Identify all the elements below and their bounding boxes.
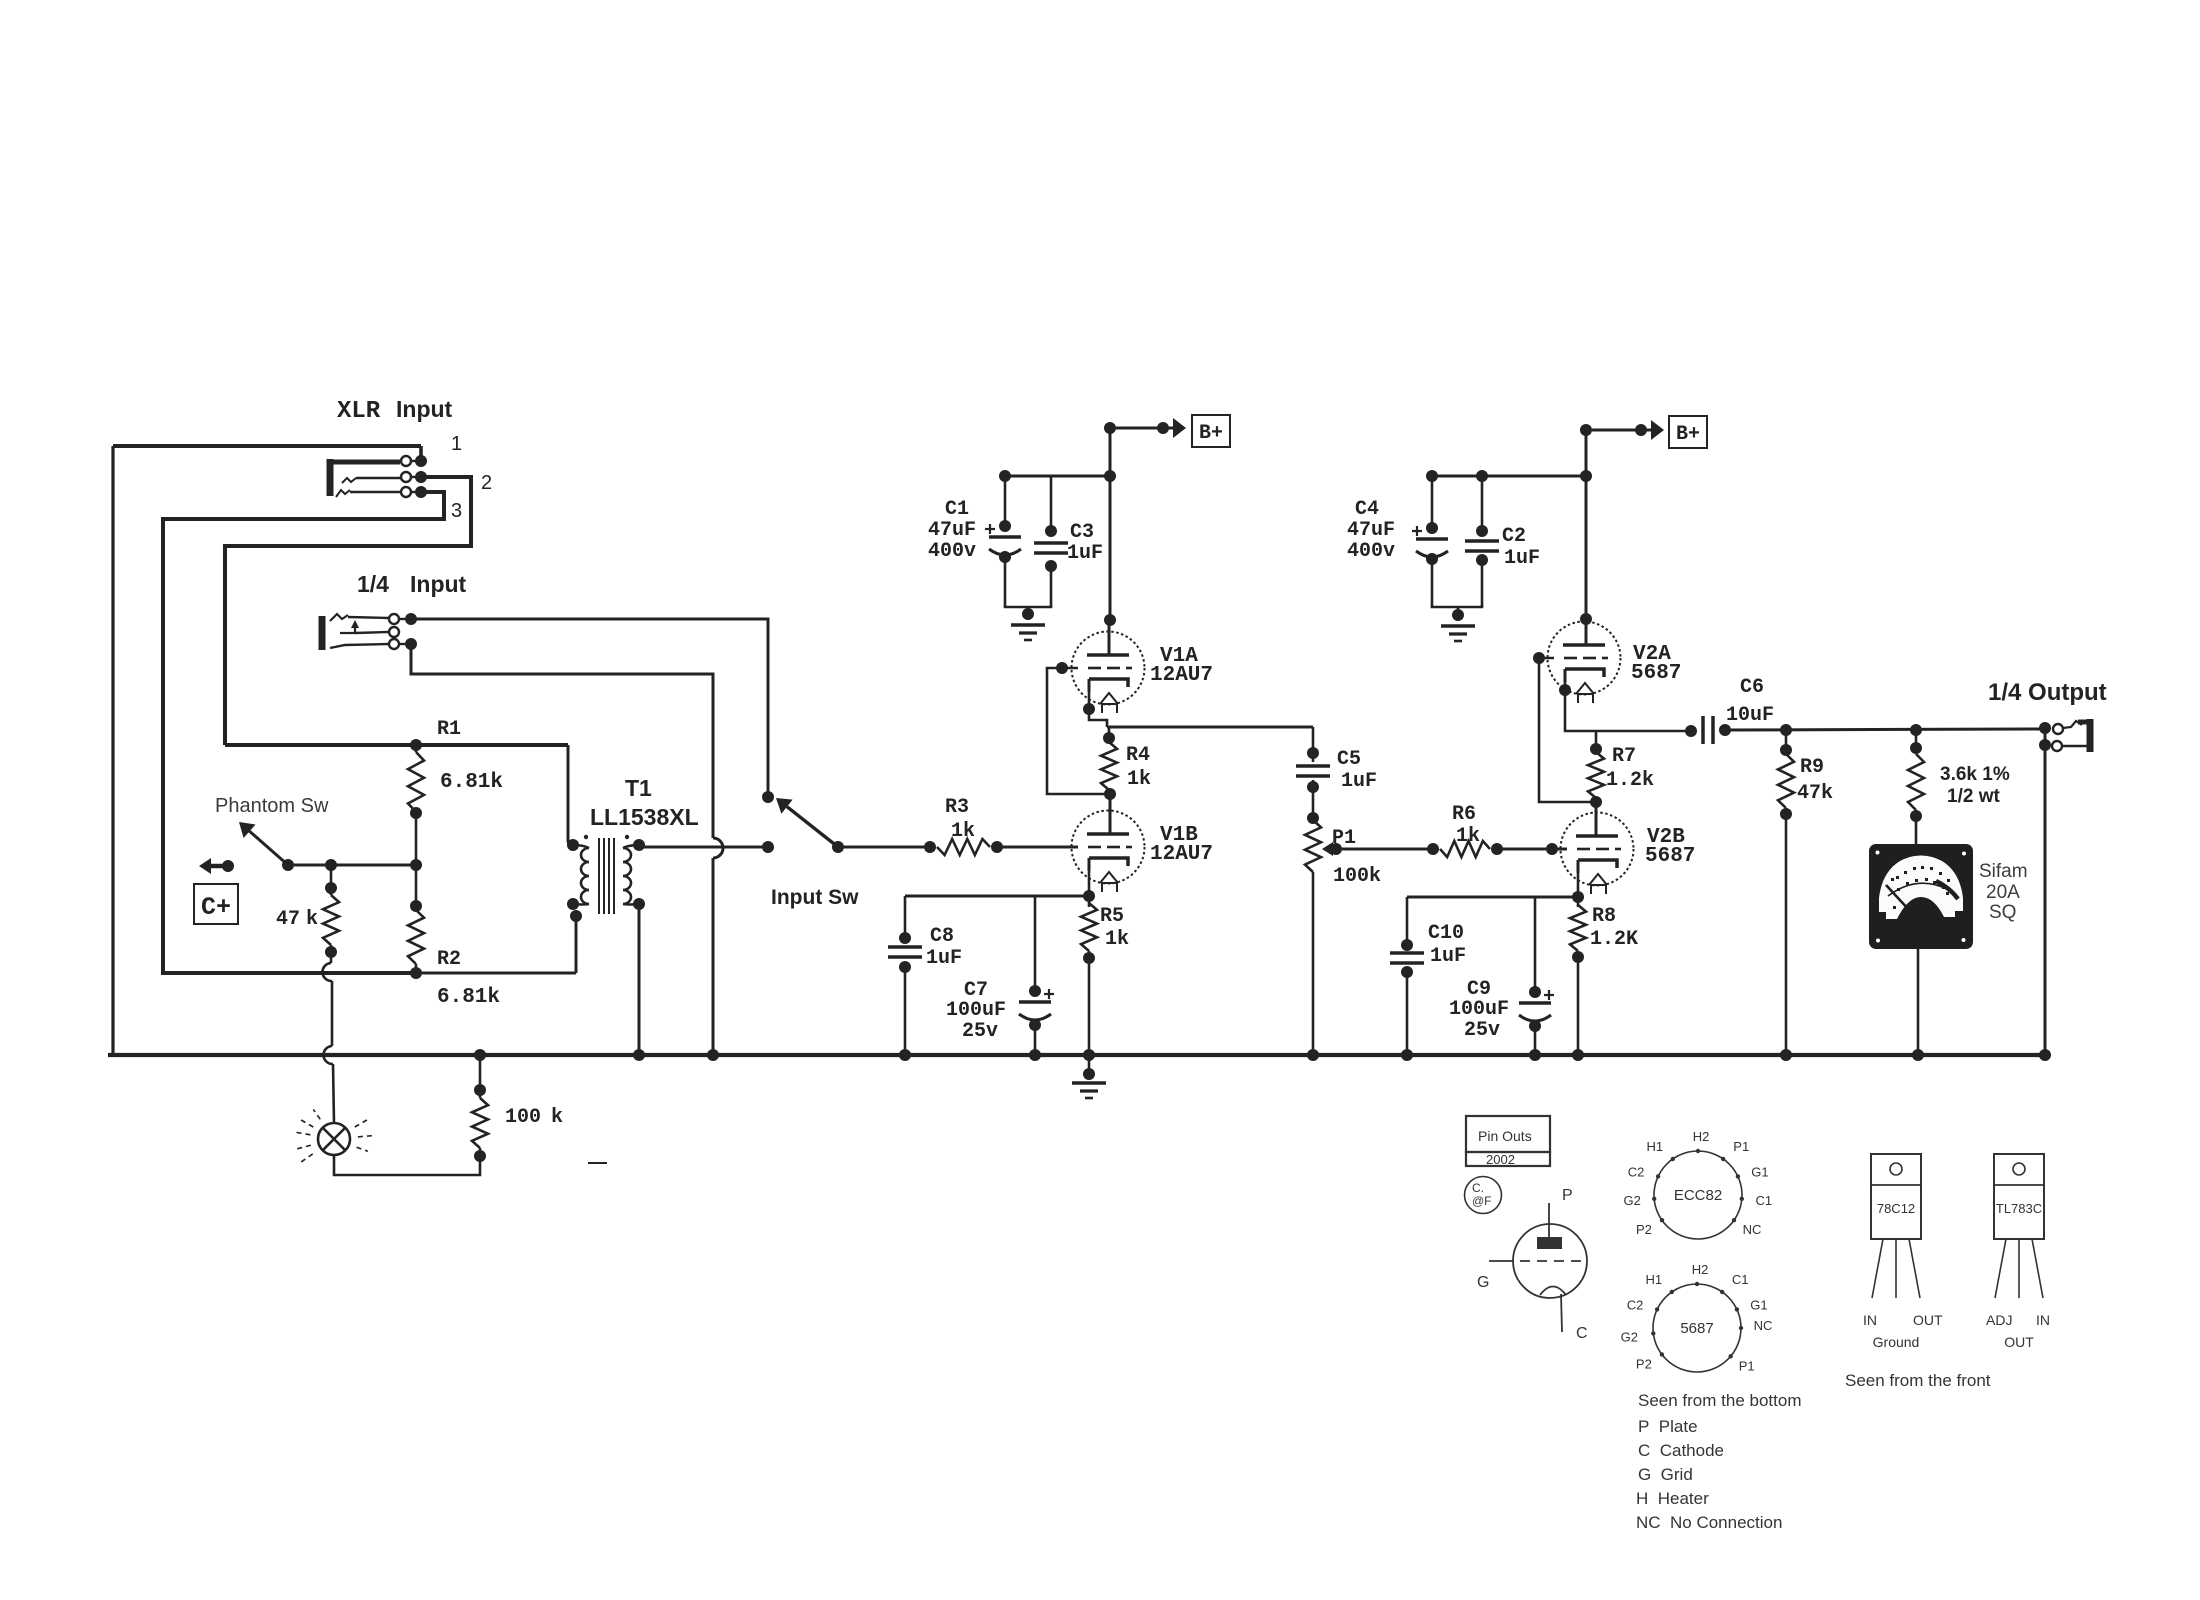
label V1A 12AU7 [1150,664,1213,687]
label V2A [1633,643,1671,666]
svg-text:G1: G1 [1750,1297,1767,1312]
triode V1A 12AU7 [1072,622,1145,713]
svg-text:5687: 5687 [1631,662,1681,685]
resistor R7 1.2k [1588,731,1604,808]
label R3 [945,796,969,819]
label C4 [1355,498,1379,521]
svg-text:Pin Outs: Pin Outs [1478,1128,1532,1144]
label P1 value 100k [1333,865,1381,888]
svg-text:2: 2 [481,472,492,494]
wire V1B cathode [1083,871,1095,907]
label C5 value 1uF [1341,770,1377,793]
1/4 output jack [2039,719,2093,1061]
svg-text:R4: R4 [1126,744,1150,767]
label C10 value 1uF [1430,945,1466,968]
voltage regulator 78C12 pinout [1863,1154,1943,1350]
svg-text:1uF: 1uF [1067,542,1103,565]
label 47 k [276,908,318,931]
label R9 value 47k [1797,782,1833,805]
svg-text:H Heater: H Heater [1636,1489,1709,1508]
svg-text:12AU7: 12AU7 [1150,843,1213,866]
label C7 [964,979,988,1002]
potentiometer P1 100k [1305,812,1342,1061]
svg-text:1k: 1k [1127,768,1151,791]
resistor R9 47k [1778,724,1794,1061]
label R4 [1126,744,1150,767]
svg-text:P1: P1 [1733,1139,1749,1154]
svg-text:3.6k 1%: 3.6k 1% [1940,764,2010,785]
svg-text:C.: C. [1472,1181,1484,1195]
label XLR pin 3 [451,500,462,522]
svg-text:C Cathode: C Cathode [1638,1441,1724,1460]
wire V1A cathode node to C5 [1107,726,1313,729]
svg-text:ADJ: ADJ [1986,1312,2012,1328]
wire C4/C2 bottoms joined [1432,605,1482,607]
svg-text:H2: H2 [1693,1129,1710,1144]
label P1 [1332,827,1356,850]
triode V2B 5687 [1561,802,1634,894]
svg-text:1uF: 1uF [1430,945,1466,968]
triode V2A 5687 [1548,622,1621,704]
label XLR pin 1 [451,433,462,455]
svg-text:C: C [1576,1325,1588,1342]
svg-text:ECC82: ECC82 [1674,1187,1722,1204]
wire C1/C3 bottoms joined [1005,605,1051,607]
label C1 value 400v [928,540,976,563]
wire 1/4 input sleeve to ground bus (with hop) [405,638,723,1061]
svg-text:C2: C2 [1628,1164,1645,1179]
svg-text:78C12: 78C12 [1877,1201,1915,1216]
wire C6 to output jack [1725,729,2040,730]
label C9 value 100uF [1449,998,1509,1021]
wire R6 to V2B grid [1497,843,1567,855]
svg-text:R8: R8 [1592,905,1616,928]
svg-text:NC No Connection: NC No Connection [1636,1513,1782,1532]
ground symbol (main) [1072,1055,1106,1098]
svg-text:Phantom Sw: Phantom Sw [215,795,329,817]
lamp (phantom indicator) [293,1110,374,1162]
svg-text:NC: NC [1743,1222,1762,1237]
label R7 value 1.2k [1606,769,1654,792]
label V1A [1160,645,1198,668]
label C8 value 1uF [926,947,962,970]
svg-text:1.2k: 1.2k [1606,769,1654,792]
svg-text:Input: Input [410,571,467,597]
svg-text:IN: IN [1863,1312,1877,1328]
svg-text:Seen from the front: Seen from the front [1845,1371,1991,1390]
label R1 [437,718,461,741]
note Seen from the front [1845,1371,1991,1390]
ground bus wire (bottom horizontal) [108,1053,2048,1057]
label R1 value 6.81k [440,771,503,794]
wire V2A grid to R7 bottom (SRPP tie) [1533,652,1592,802]
label Sifam [1979,861,2028,882]
svg-text:H2: H2 [1692,1262,1709,1277]
note P Plate [1638,1417,1698,1436]
wire phantom switch to R1/R2 junction [288,864,416,867]
svg-text:5687: 5687 [1680,1320,1713,1337]
label 20A [1986,882,2020,903]
svg-text:XLR: XLR [337,398,381,425]
label V2B [1647,826,1685,849]
svg-text:1.2K: 1.2K [1590,928,1638,951]
note NC No Connection [1636,1513,1782,1532]
ground symbol (stage 1 filter) [1011,607,1045,640]
label R6 value 1k [1456,825,1480,848]
svg-text:P: P [1562,1187,1573,1204]
transformer T1 LL1538XL [225,745,645,914]
XLR input jack [327,456,416,497]
label 3.6k 1% [1940,764,2010,785]
svg-text:400v: 400v [928,540,976,563]
svg-text:Input Sw: Input Sw [771,886,859,909]
C+ feed arrow [199,858,234,874]
label R9 [1800,756,1824,779]
label C2 [1502,525,1526,548]
meter Sifam 20A SQ [1869,844,1973,949]
label C4 value 400v [1347,540,1395,563]
svg-text:R9: R9 [1800,756,1824,779]
wire T1 secondary out to input switch [639,846,766,849]
svg-text:47uF: 47uF [1347,519,1395,542]
wire R2 bottom to T1 primary bottom [414,910,582,973]
svg-text:NC: NC [1754,1318,1773,1333]
svg-text:2002: 2002 [1486,1152,1515,1167]
note C Cathode [1638,1441,1724,1460]
Pin Outs title box [1466,1116,1550,1167]
svg-text:1uF: 1uF [926,947,962,970]
label V1B 12AU7 [1150,843,1213,866]
resistor R4 1k [1101,727,1117,800]
label R2 [437,948,461,971]
svg-text:Input: Input [396,396,453,422]
label 100 k [505,1106,563,1129]
svg-text:P2: P2 [1636,1222,1652,1237]
svg-text:47: 47 [276,908,300,931]
svg-text:OUT: OUT [2004,1334,2034,1350]
label C9 [1467,978,1491,1001]
capacitor C5 1uF [1296,727,1330,820]
label C5 [1337,748,1361,771]
phantom switch [239,822,294,871]
label P (plate lead) [1562,1187,1573,1204]
note G Grid [1638,1465,1693,1484]
svg-text:47k: 47k [1797,782,1833,805]
C+ box [194,884,238,924]
svg-text:1/4: 1/4 [357,571,389,597]
wire V1A cathode to output node [1083,692,1107,727]
svg-text:1uF: 1uF [1504,547,1540,570]
voltage regulator TL783C pinout [1986,1154,2050,1350]
svg-text:P1: P1 [1739,1358,1755,1373]
hand-drawn triode pinout sketch [1489,1203,1587,1332]
svg-text:400v: 400v [1347,540,1395,563]
svg-text:R1: R1 [437,718,461,741]
svg-text:G: G [1477,1274,1489,1291]
wire B+ to V1A plate [1104,428,1116,626]
svg-text:1k: 1k [1456,825,1480,848]
label C10 [1428,922,1464,945]
wire lamp to 100k [334,1155,480,1175]
label C1 value 47uF [928,519,976,542]
label R8 value 1.2K [1590,928,1638,951]
svg-text:LL1538XL: LL1538XL [590,804,699,830]
svg-text:C5: C5 [1337,748,1361,771]
stray dash mark [588,1162,607,1164]
label LL1538XL [590,804,699,830]
input switch [762,791,844,853]
label Phantom Sw [215,795,329,817]
svg-text:@F: @F [1472,1194,1492,1208]
label 1/4 Output [1988,679,2107,706]
svg-text:T1: T1 [625,775,652,801]
svg-text:C1: C1 [1732,1272,1749,1287]
label R5 [1100,905,1124,928]
svg-text:G Grid: G Grid [1638,1465,1693,1484]
svg-text:C6: C6 [1740,676,1764,699]
label C2 value 1uF [1504,547,1540,570]
svg-text:TL783C: TL783C [1996,1201,2042,1216]
wire C1/C3 to B+ rail [999,470,1116,482]
wire T1 secondary bottom to ground bus [633,904,645,1061]
wire XLR pin 3 to R2 bottom [163,486,444,973]
resistor R3 1k [924,839,1003,855]
node R1/R2/phantom junction [410,859,422,871]
svg-text:B+: B+ [1199,422,1223,445]
label C6 [1740,676,1764,699]
ECC82 pinout diagram [1623,1129,1772,1239]
svg-text:Seen from the bottom: Seen from the bottom [1638,1391,1801,1410]
resistor R8 1.2K [1570,905,1586,1061]
capacitor C4 47uF 400v (electrolytic) [1412,476,1448,607]
label G (grid lead) [1477,1274,1489,1291]
label C1 [945,498,969,521]
label V1B [1160,824,1198,847]
svg-text:25v: 25v [1464,1019,1500,1042]
label R3 value 1k [951,820,975,843]
5687 pinout diagram [1621,1262,1773,1373]
resistor R2 6.81k [408,900,424,979]
label R6 [1452,803,1476,826]
svg-text:OUT: OUT [1913,1312,1943,1328]
wire XLR pin 1 to ground bus (left outer) [113,446,427,1055]
svg-text:C8: C8 [930,925,954,948]
svg-text:1/2 wt: 1/2 wt [1947,786,2000,807]
svg-text:R6: R6 [1452,803,1476,826]
label 1/4 Input [357,571,467,597]
capacitor C10 1uF [1390,897,1424,1061]
svg-text:R7: R7 [1612,745,1636,768]
wire V2B cathode to C10/C9 [1407,896,1578,899]
svg-text:C1: C1 [1756,1193,1773,1208]
note H Heater [1636,1489,1709,1508]
resistor R1 6.81k [408,739,424,906]
svg-text:C2: C2 [1502,525,1526,548]
svg-text:P Plate: P Plate [1638,1417,1698,1436]
label R2 value 6.81k [437,986,500,1009]
wire V2B cathode [1572,873,1584,907]
svg-text:SQ: SQ [1989,902,2016,923]
wire input switch to R3 [838,846,932,849]
triode V1B 12AU7 [1072,794,1145,892]
capacitor C9 100uF 25v (electrolytic) [1519,897,1554,1061]
svg-text:C10: C10 [1428,922,1464,945]
resistor R5 1k [1081,903,1097,1061]
svg-text:C+: C+ [201,893,231,922]
svg-text:C3: C3 [1070,521,1094,544]
svg-text:3: 3 [451,500,462,522]
label C (cathode lead) [1576,1325,1588,1342]
label 1/2 wt [1947,786,2000,807]
label C7 value 100uF [946,999,1006,1022]
label T1 [625,775,652,801]
label SQ [1989,902,2016,923]
wire XLR pin 2 to R1/T1 primary [225,471,471,745]
resistor 100k bleeder [472,1049,488,1162]
svg-text:1k: 1k [1105,928,1129,951]
resistor 3.6k 1% (meter series) [1908,724,1924,844]
wire C4/C2 to B+ rail [1426,470,1592,482]
wire V2A cathode to output node [1559,682,1688,731]
svg-text:6.81k: 6.81k [437,986,500,1009]
svg-text:1: 1 [451,433,462,455]
capacitor C8 1uF [888,896,922,1061]
svg-text:47uF: 47uF [928,519,976,542]
svg-text:100: 100 [505,1106,541,1129]
capacitor C1 47uF 400v (electrolytic) [985,476,1021,607]
svg-text:k: k [551,1106,563,1129]
wire meter to ground bus [1912,949,1924,1061]
label R4 value 1k [1127,768,1151,791]
svg-text:1/4 Output: 1/4 Output [1988,679,2107,706]
svg-text:100k: 100k [1333,865,1381,888]
B+ terminal (stage 1) [1104,415,1230,447]
label V2A 5687 [1631,662,1681,685]
svg-text:k: k [306,908,318,931]
svg-text:IN: IN [2036,1312,2050,1328]
resistor R6 1k [1427,841,1503,857]
label XLR pin 2 [481,472,492,494]
svg-text:10uF: 10uF [1726,704,1774,727]
label R8 [1592,905,1616,928]
label XLR Input [337,396,453,425]
svg-text:R2: R2 [437,948,461,971]
capacitor C6 10uF [1685,716,1731,744]
B+ terminal (stage 2) [1580,416,1707,448]
label Input Sw [771,886,859,909]
svg-text:R5: R5 [1100,905,1124,928]
label R7 [1612,745,1636,768]
svg-text:1uF: 1uF [1341,770,1377,793]
svg-text:H1: H1 [1645,1272,1662,1287]
resistor 47k (phantom feed) [323,859,339,963]
svg-text:6.81k: 6.81k [440,771,503,794]
svg-text:20A: 20A [1986,882,2020,903]
svg-text:25v: 25v [962,1020,998,1043]
label C8 [930,925,954,948]
wire B+ to V2A plate [1580,430,1592,625]
svg-text:C4: C4 [1355,498,1379,521]
label C4 value 47uF [1347,519,1395,542]
stamp circle C@F [1465,1177,1502,1214]
wire V1A grid to R4 bottom (SRPP tie) [1047,662,1106,794]
capacitor C7 100uF 25v (electrolytic) [1019,896,1054,1061]
label R5 value 1k [1105,928,1129,951]
capacitor C2 1uF [1465,476,1499,607]
label C9 value 25v [1464,1019,1500,1042]
svg-text:P1: P1 [1332,827,1356,850]
wire 1/4 input tip to input switch [405,613,768,792]
svg-text:1k: 1k [951,820,975,843]
svg-text:B+: B+ [1676,423,1700,446]
ground symbol (stage 2 filter) [1441,607,1475,641]
svg-text:G2: G2 [1621,1329,1638,1344]
svg-text:C1: C1 [945,498,969,521]
svg-text:G1: G1 [1751,1164,1768,1179]
svg-text:C2: C2 [1627,1297,1644,1312]
wire V1B cathode to C8/C7 [905,895,1089,898]
svg-text:G2: G2 [1623,1193,1640,1208]
label C3 [1070,521,1094,544]
label C7 value 25v [962,1020,998,1043]
capacitor C3 1uF [1034,476,1068,607]
svg-text:P2: P2 [1636,1356,1652,1371]
svg-text:5687: 5687 [1645,845,1695,868]
svg-text:100uF: 100uF [946,999,1006,1022]
1/4 input jack [322,614,405,650]
wire 47k to lamp (hops over junction line and bus) [323,963,334,1123]
svg-text:R3: R3 [945,796,969,819]
label C6 value 10uF [1726,704,1774,727]
wire R3 to V1B grid [997,846,1078,849]
svg-text:H1: H1 [1646,1139,1663,1154]
wire P1 wiper to R6 [1336,848,1435,851]
label C3 value 1uF [1067,542,1103,565]
svg-text:100uF: 100uF [1449,998,1509,1021]
label V2B 5687 [1645,845,1695,868]
note Seen from the bottom [1638,1391,1801,1410]
svg-text:Ground: Ground [1873,1334,1920,1350]
svg-text:Sifam: Sifam [1979,861,2028,882]
svg-text:12AU7: 12AU7 [1150,664,1213,687]
